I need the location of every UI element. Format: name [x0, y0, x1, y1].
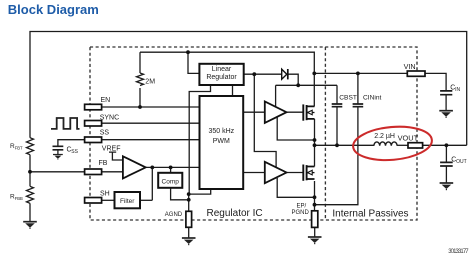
- svg-text:VIN: VIN: [404, 62, 416, 71]
- svg-text:AGND: AGND: [165, 212, 183, 218]
- svg-text:EN: EN: [101, 97, 111, 104]
- svg-text:30133177: 30133177: [448, 249, 469, 255]
- svg-text:PGND: PGND: [292, 210, 310, 216]
- svg-text:Comp: Comp: [162, 178, 180, 185]
- svg-text:FBB: FBB: [15, 196, 23, 201]
- svg-text:VOUT: VOUT: [398, 134, 419, 143]
- svg-text:Block Diagram: Block Diagram: [8, 2, 99, 17]
- svg-text:2.2 µH: 2.2 µH: [374, 133, 395, 140]
- svg-text:OUT: OUT: [456, 159, 467, 165]
- svg-text:SYNC: SYNC: [100, 115, 119, 122]
- svg-text:IN: IN: [455, 87, 460, 93]
- svg-text:Regulator IC: Regulator IC: [207, 208, 263, 219]
- svg-text:FB: FB: [99, 160, 108, 167]
- svg-text:Filter: Filter: [120, 198, 135, 205]
- svg-text:Internal Passives: Internal Passives: [332, 209, 408, 220]
- svg-text:PWM: PWM: [213, 138, 230, 145]
- svg-text:CBST: CBST: [339, 94, 357, 101]
- svg-text:SH: SH: [100, 191, 110, 198]
- svg-text:2M: 2M: [145, 78, 155, 85]
- svg-text:FBT: FBT: [15, 146, 23, 151]
- svg-text:SS: SS: [100, 130, 110, 137]
- svg-text:SS: SS: [71, 149, 78, 155]
- svg-text:350 kHz: 350 kHz: [208, 128, 234, 135]
- svg-text:Regulator: Regulator: [206, 74, 237, 81]
- svg-text:CINint: CINint: [363, 94, 381, 101]
- svg-text:VREF: VREF: [102, 145, 121, 152]
- svg-text:Linear: Linear: [212, 66, 232, 73]
- svg-text:EP/: EP/: [297, 203, 307, 209]
